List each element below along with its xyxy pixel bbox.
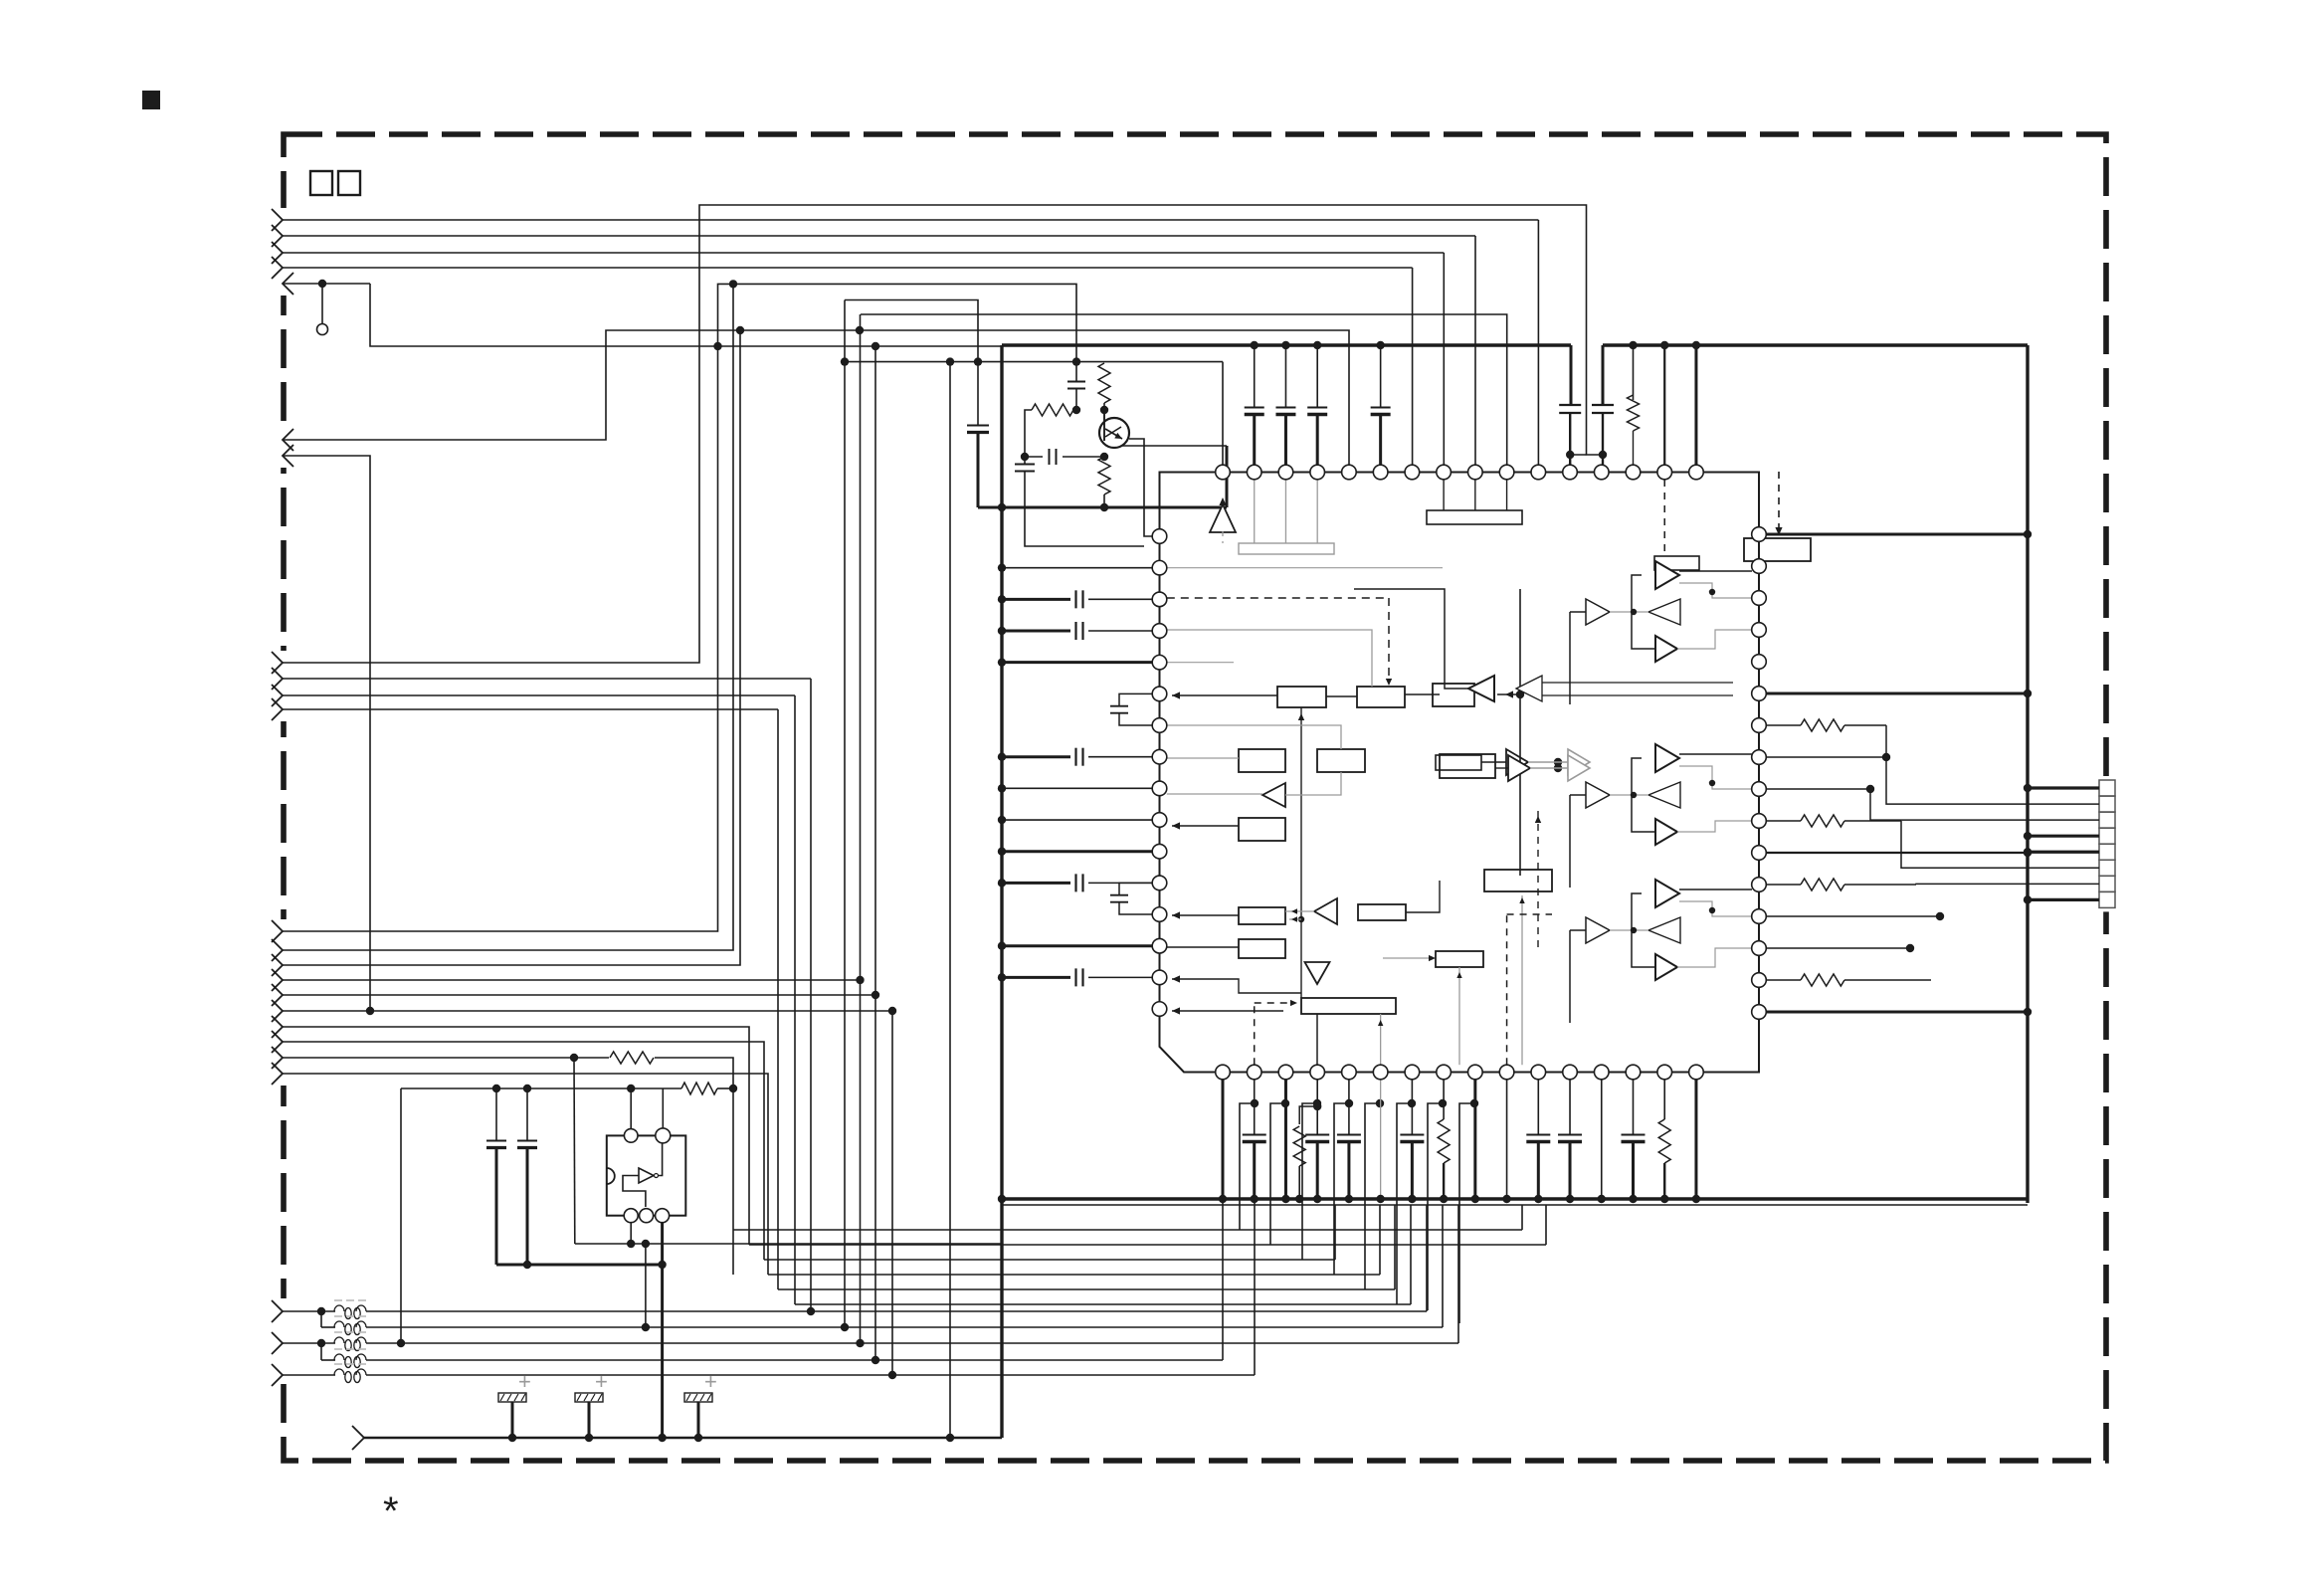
svg-text:+: + xyxy=(704,1369,717,1394)
svg-text:+: + xyxy=(518,1369,531,1394)
svg-text:*: * xyxy=(383,1489,399,1533)
svg-text:+: + xyxy=(595,1369,608,1394)
